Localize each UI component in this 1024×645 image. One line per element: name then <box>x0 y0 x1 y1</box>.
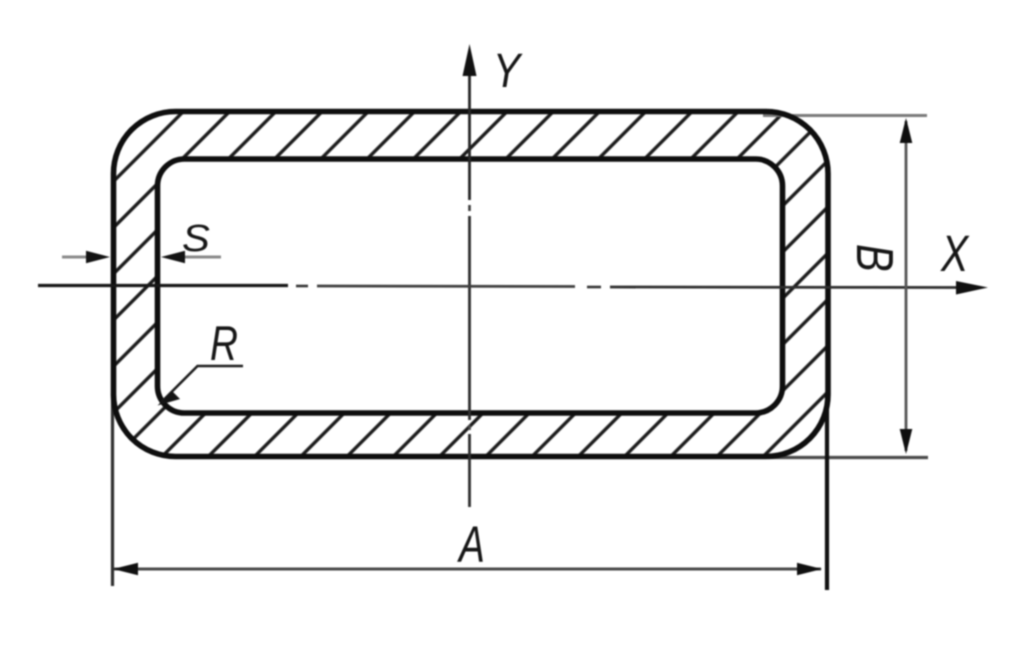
A dim arrow right <box>797 563 822 576</box>
tube inner bore (white) <box>158 159 783 413</box>
outer contour of tube <box>114 112 829 457</box>
extension line bottom (for B) <box>768 456 928 459</box>
Y axis arrowhead <box>463 44 477 76</box>
extension line right (for A) <box>825 394 829 590</box>
svg-text:R: R <box>210 317 238 371</box>
svg-text:S: S <box>182 218 210 260</box>
X axis arrowhead <box>956 281 988 295</box>
tube wall hatched ring <box>114 112 829 457</box>
extension line top (for B) <box>763 114 927 117</box>
Y axis centerline <box>468 70 471 200</box>
svg-text:A: A <box>456 516 484 573</box>
B dim arrow down <box>900 429 913 454</box>
R leader arrowhead <box>158 391 181 406</box>
S dimension arrow left (points right at outer wall) <box>62 256 90 259</box>
B dimension line <box>905 121 908 451</box>
R leader line <box>162 366 244 402</box>
S dimension arrow right (points left at inner wall) <box>183 256 221 259</box>
A dim arrow left <box>113 563 138 576</box>
A dimension line <box>114 568 821 571</box>
X axis centerline <box>38 284 288 287</box>
svg-text:Y: Y <box>493 45 523 98</box>
inner contour of tube <box>158 159 783 413</box>
svg-text:B: B <box>846 244 905 272</box>
svg-text:X: X <box>940 225 970 282</box>
extension line left (for A) <box>111 394 114 586</box>
B dim arrow up <box>900 118 913 143</box>
